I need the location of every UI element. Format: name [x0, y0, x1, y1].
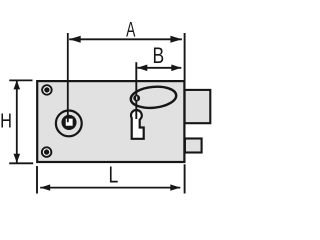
svg-text:A: A: [126, 17, 135, 41]
svg-text:B: B: [152, 44, 164, 69]
svg-text:L: L: [108, 162, 118, 188]
svg-text:H: H: [0, 109, 12, 132]
